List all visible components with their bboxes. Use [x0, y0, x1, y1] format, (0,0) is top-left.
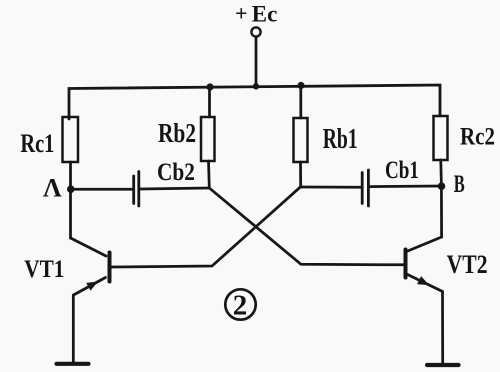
figure number circled 2	[225, 289, 255, 319]
wire: VT1 collector diagonal	[71, 238, 107, 256]
svg-text:Λ: Λ	[43, 174, 62, 203]
svg-text:Rc2: Rc2	[460, 124, 495, 151]
wire: Cb2 right plate to Rb2 bottom node	[140, 188, 209, 189]
wire: Rb2 bottom lead to node below	[207, 161, 211, 188]
wire: node B down to VT2 collector bend	[440, 186, 443, 237]
transistor VT1 base bar	[108, 253, 112, 282]
junction node at bus / Rb2	[206, 83, 213, 90]
wire: Rb2 top lead	[208, 88, 211, 118]
resistor Rb1	[294, 118, 308, 162]
svg-text:B: B	[454, 171, 465, 198]
node A junction dot	[67, 185, 75, 193]
capacitor Cb1 left plate	[361, 173, 364, 204]
svg-text:Rb2: Rb2	[158, 117, 196, 148]
capacitor Cb2 left plate	[132, 176, 135, 204]
resistor Rb2	[201, 117, 215, 161]
svg-text:2: 2	[233, 290, 248, 322]
wire: Rc1 bottom lead through node A down to VT1 collector bend	[69, 162, 72, 238]
junction node at bus / Rb1	[297, 82, 304, 89]
ground (VT2 emitter)	[427, 363, 459, 367]
svg-text:Cb2: Cb2	[157, 159, 195, 186]
wire: top supply bus	[69, 85, 440, 119]
VT1 emitter arrow	[86, 282, 98, 291]
svg-text:Ec: Ec	[252, 2, 277, 28]
wire: VT2 emitter diagonal	[407, 274, 443, 292]
transistor VT2 base bar	[404, 250, 408, 278]
capacitor Cb1 right plate	[367, 170, 370, 206]
svg-text:+: +	[235, 1, 248, 26]
node B junction dot	[438, 182, 446, 190]
wire: cross-coupling diagonal from Rb2/Cb2 node to VT2 base	[209, 188, 404, 265]
wire: Rc2 bottom lead to node B	[439, 160, 442, 186]
wire: Cb1 right plate to node B	[370, 185, 442, 188]
wire: VT1 emitter diagonal	[74, 278, 106, 296]
wire: cross-coupling diagonal from Rb1/Cb1 node to VT1 base	[111, 187, 301, 267]
power terminal +Ec open circle	[251, 27, 260, 36]
svg-text:Rb1: Rb1	[323, 124, 358, 155]
svg-text:Cb1: Cb1	[385, 157, 419, 184]
resistor Rc1	[63, 117, 79, 162]
capacitor Cb2 right plate	[137, 172, 140, 207]
svg-text:Rc1: Rc1	[20, 128, 54, 158]
wire: VT2 emitter vertical to ground	[441, 292, 444, 364]
junction node at supply bus / +Ec	[253, 83, 259, 89]
wire: Rb1 bottom lead to node below	[299, 162, 302, 187]
wire: Rb1 bottom node to Cb1 left plate	[301, 186, 361, 189]
wire: VT1 emitter vertical to ground	[72, 295, 75, 362]
svg-text:VT1: VT1	[24, 256, 64, 283]
resistor Rc2	[434, 116, 448, 160]
wire: node A to Cb2 left plate	[71, 188, 133, 191]
wire: VT2 collector diagonal	[407, 237, 442, 252]
svg-text:VT2: VT2	[447, 250, 488, 279]
VT2 emitter arrow	[417, 276, 429, 285]
wire: +Ec terminal to top bus	[255, 37, 258, 87]
ground (VT1 emitter)	[57, 362, 89, 366]
wire: Rb1 top lead	[299, 86, 302, 118]
